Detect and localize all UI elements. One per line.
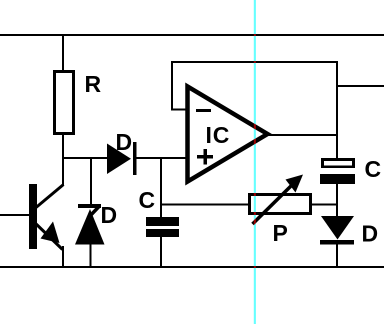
diode D3 triangle bbox=[321, 216, 354, 240]
potentiometer P body bbox=[250, 195, 311, 214]
zener diode D triangle bbox=[75, 209, 105, 245]
transistor base bar bbox=[29, 184, 37, 249]
wire node to diode bbox=[63, 157, 108, 159]
capacitor C1 plate 1 bbox=[146, 217, 179, 226]
cursor line bbox=[254, 0, 256, 324]
zener diode D bend stroke bbox=[88, 206, 100, 218]
wire resistor top lead bbox=[62, 36, 64, 73]
wire minus input bbox=[171, 109, 188, 111]
capacitor C3 plate 1 hollow bbox=[321, 158, 355, 168]
wire bottom supply rail bbox=[0, 266, 384, 268]
potentiometer P wiper stroke bbox=[253, 183, 295, 224]
svg-text:D: D bbox=[362, 221, 379, 247]
wire transistor base lead bbox=[0, 214, 29, 216]
wire opamp output bbox=[268, 134, 338, 136]
diode D1 triangle bbox=[107, 144, 131, 175]
svg-text:D: D bbox=[116, 129, 133, 155]
svg-text:C: C bbox=[365, 156, 382, 182]
wire node to potentiometer bbox=[161, 204, 250, 206]
wire potentiometer right lead bbox=[312, 204, 338, 206]
transistor collector stroke bbox=[33, 185, 64, 211]
wire feedback top bbox=[171, 61, 338, 63]
op-amp plus sign vertical bbox=[204, 149, 208, 165]
wire diode to opamp plus input bbox=[136, 157, 188, 159]
wire diode D3 bottom lead bbox=[336, 244, 338, 268]
capacitor C3 plate 2 bbox=[320, 174, 355, 184]
wire zener top lead bbox=[90, 158, 92, 205]
capacitor C1 plate 2 bbox=[146, 229, 179, 237]
svg-text:C: C bbox=[139, 187, 156, 213]
wire resistor bottom to collector bbox=[62, 133, 64, 186]
potentiometer P wiper arrowhead bbox=[286, 175, 304, 193]
wire capacitor C3 bottom lead bbox=[336, 184, 338, 217]
zener diode D cathode bar bbox=[78, 204, 101, 208]
svg-text:D: D bbox=[101, 202, 118, 228]
svg-text:IC: IC bbox=[206, 122, 231, 148]
wire zener bottom lead bbox=[90, 243, 92, 268]
wire feedback right vertical bbox=[336, 61, 338, 159]
transistor emitter stroke bbox=[33, 221, 63, 250]
op-amp IC triangle bbox=[188, 87, 268, 182]
wire capacitor C1 top lead bbox=[160, 158, 162, 218]
wire top supply rail bbox=[0, 34, 384, 36]
svg-text:P: P bbox=[273, 220, 288, 246]
wire feedback left vertical bbox=[171, 61, 173, 110]
resistor R bbox=[55, 72, 74, 134]
diode D1 cathode bar bbox=[133, 142, 137, 175]
op-amp plus sign horizontal bbox=[197, 155, 213, 159]
transistor emitter arrowhead bbox=[41, 222, 60, 244]
wire branch to right edge bbox=[336, 85, 384, 87]
wire capacitor C1 bottom lead bbox=[160, 237, 162, 268]
op-amp minus sign bbox=[196, 109, 211, 112]
diode D3 cathode bar bbox=[320, 240, 354, 245]
wire emitter bottom lead bbox=[62, 246, 64, 268]
svg-text:R: R bbox=[85, 71, 102, 97]
